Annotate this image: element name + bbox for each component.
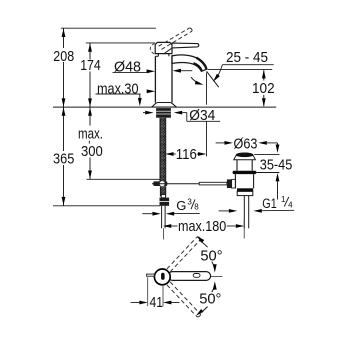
faucet neck below block <box>157 54 159 57</box>
deck / countertop line <box>53 106 276 108</box>
handle at +50 deg (dashed) <box>167 238 197 269</box>
dim max.180 <box>163 224 171 228</box>
waste center line <box>243 219 245 239</box>
escutcheon base <box>152 103 177 108</box>
spout swivel arc arrow <box>191 77 201 84</box>
raised handle position (dashed) <box>159 28 190 46</box>
lever root skirt line <box>164 48 172 53</box>
waste seal washer (black) <box>237 188 253 191</box>
body right edge <box>171 56 173 103</box>
G3/8 threaded pipe <box>161 206 163 229</box>
handle at -50 deg (dashed) <box>167 285 197 316</box>
dim G3/8 arrows at pipe <box>142 213 152 215</box>
small arrow at body (set screw) <box>147 90 150 92</box>
horizontal pull rod <box>152 183 199 185</box>
spout outlet reference line <box>208 68 273 70</box>
svg-text:4: 4 <box>288 200 293 209</box>
dim max.300 vertical line <box>89 107 91 125</box>
aerator stream direction line <box>207 71 219 87</box>
body left edge <box>154 56 156 102</box>
svg-text:25 - 45: 25 - 45 <box>226 49 268 66</box>
svg-text:Ø63: Ø63 <box>234 136 258 153</box>
lever handle (horizontal, solid) <box>172 43 199 48</box>
leader from 25-45 to stream line <box>215 65 222 80</box>
spout tip thick band <box>196 58 206 69</box>
dim 41 <box>147 277 149 306</box>
top view: lever slot detail <box>193 274 200 278</box>
top view: faucet body circle <box>154 269 170 285</box>
spout <box>172 55 207 71</box>
extension line from spout outlet down <box>206 73 208 105</box>
top view: spout stub left <box>147 274 155 276</box>
threaded shank with mounting nut (dark) <box>156 108 171 118</box>
svg-text:365: 365 <box>53 151 74 168</box>
faucet center line below pipe <box>162 228 164 239</box>
dim 365 bottom reference line <box>53 205 160 207</box>
waste tailpipe G1 1/4 <box>243 196 245 229</box>
flexible supply hose (braided, cross-hatched) <box>160 118 166 182</box>
svg-text:208: 208 <box>53 48 74 65</box>
svg-text:1: 1 <box>281 195 286 204</box>
rod end cap at waste <box>227 179 232 188</box>
waste cap lip <box>234 156 256 160</box>
waste dome cap dark top <box>236 153 253 157</box>
underline max.30 and down arrow to deck <box>96 93 141 95</box>
pull rod cross fitting <box>153 181 167 186</box>
faucet handle block (cartridge head) <box>155 42 172 53</box>
svg-text:G1: G1 <box>262 196 276 211</box>
waste deck reference line <box>255 172 279 174</box>
underline Ø34 <box>187 120 220 122</box>
svg-text:50°: 50° <box>199 291 221 308</box>
dim 208 extension line top <box>61 27 156 29</box>
lower 50 deg arc with arrows <box>195 309 204 317</box>
G3/8 connection nut <box>161 195 165 198</box>
dim max.300 bottom reference line (pull rod level) <box>87 178 163 180</box>
dim Ø34 arrows at escutcheon <box>143 112 145 114</box>
dim 365 vertical line <box>63 107 65 151</box>
dim 174 vertical line <box>89 43 91 60</box>
center line right of lever <box>211 276 223 278</box>
svg-text:116: 116 <box>176 146 197 163</box>
dim G1 1/4 arrows at waste outlet <box>219 210 229 212</box>
top view: lever pivot (dark) <box>161 273 165 280</box>
dim 102 vertical <box>263 70 265 80</box>
svg-text:41: 41 <box>150 294 164 311</box>
underline 25-45 <box>222 64 273 66</box>
waste neck <box>236 160 238 171</box>
upper 50 deg arc with arrows <box>195 235 204 243</box>
waste body <box>234 174 236 188</box>
top view: lever handle <box>168 272 211 281</box>
handle lift dashed arc (left of block) <box>150 43 154 53</box>
right Ø48 arrow <box>173 69 181 73</box>
dim 116 <box>165 152 173 156</box>
waste flange (black) <box>233 171 257 174</box>
svg-text:G: G <box>176 198 186 213</box>
waste side port <box>232 179 236 188</box>
waste lower stub <box>237 191 253 195</box>
dim 208 vertical line <box>63 28 65 48</box>
svg-text:300: 300 <box>81 143 103 160</box>
dim 174 extension line top <box>86 42 155 44</box>
svg-text:35-45: 35-45 <box>260 157 293 174</box>
svg-text:8: 8 <box>194 203 199 212</box>
svg-text:3: 3 <box>187 198 192 207</box>
lower hose segment (braided) <box>160 186 165 196</box>
svg-text:50°: 50° <box>200 247 222 264</box>
svg-text:102: 102 <box>252 80 275 97</box>
svg-text:max.180: max.180 <box>178 218 226 235</box>
underline and arrow for Ø48 <box>113 71 147 73</box>
svg-text:max.30: max.30 <box>97 80 139 97</box>
svg-text:174: 174 <box>80 57 101 74</box>
waste top reference line <box>254 153 279 155</box>
body shoulder <box>155 55 158 57</box>
svg-text:max.: max. <box>78 126 103 143</box>
